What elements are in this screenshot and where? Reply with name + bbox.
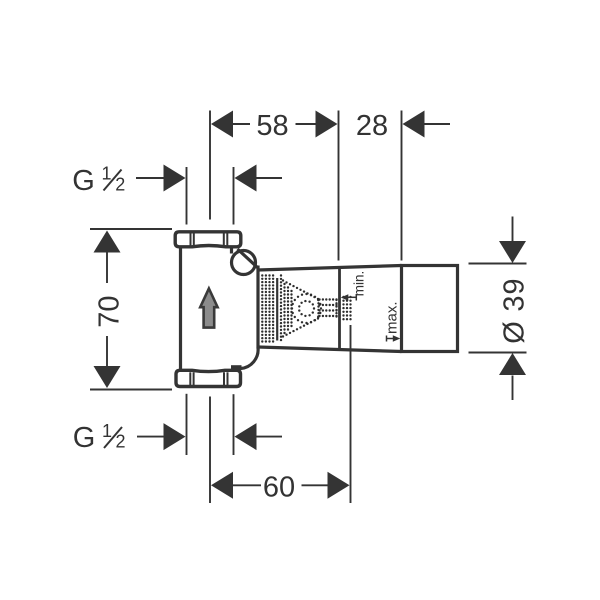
wire: 70-dimension extension lines (90, 228, 172, 230)
node A: centre-axis extension line (bottom) (209, 397, 211, 504)
svg-text:1: 1 (102, 164, 112, 184)
svg-text:60: 60 (263, 471, 295, 503)
cone top edge (258, 266, 402, 271)
svg-text:70: 70 (94, 295, 126, 327)
arrow: 60 left (pointing left) (211, 472, 233, 499)
wire: 58-dimension tail left (233, 123, 250, 125)
arrow: 58 right / 28 left (tip at min line) (316, 111, 338, 138)
service-stop horn circle (232, 251, 256, 275)
svg-text:min.: min. (351, 271, 366, 297)
node D: 60-dimension right extension line (350, 325, 352, 503)
node B: min-plane extension line (top) (338, 111, 340, 261)
wire: G1/2 top extension lines (186, 167, 188, 225)
wire: G1/2 bottom extension lines (186, 394, 188, 455)
wire: G1/2 top leader from label (136, 177, 164, 179)
svg-text:G: G (72, 165, 95, 197)
svg-text:2: 2 (116, 432, 126, 452)
svg-text:58: 58 (256, 110, 288, 142)
arrow: diameter-39 bottom (pointing up) (499, 353, 526, 375)
bottom nut facet lines (190, 372, 227, 385)
cartridge flange solid line (276, 278, 278, 341)
svg-text:2: 2 (115, 174, 125, 194)
wire: G1/2 bottom leader from label (137, 436, 164, 438)
wire: 70-dimension line tails (106, 253, 108, 284)
svg-text:G: G (73, 422, 96, 454)
wire: diameter-39 extension lines (469, 263, 527, 265)
arrow: 28 right (tip at max line, pointing left) (403, 111, 425, 138)
arrow: G1/2 bottom right (pointing left) (235, 423, 257, 450)
arrow: G1/2 bottom left (pointing right) (164, 423, 186, 450)
bottom step ledge (231, 365, 242, 370)
top hex nut (175, 232, 241, 247)
max marker arrow (387, 335, 401, 341)
valve body outline (175, 232, 457, 387)
top nut facet lines (191, 233, 228, 246)
protective sleeve rectangle (max plane at its left edge) (402, 266, 458, 352)
body right edge stub below top nut (230, 248, 233, 254)
bottom hex nut (176, 370, 241, 386)
arrow: G1/2 top right (pointing left) (235, 165, 257, 192)
wire: G1/2 top tail right (257, 177, 283, 179)
label G 1/2 (bottom) (73, 421, 126, 454)
arrow: 60 right (pointing right) (328, 472, 350, 499)
stipple pattern: cross-sectioned internals (261, 274, 352, 342)
bottom fillet arc (241, 348, 259, 369)
node C: max-plane extension line (top) (401, 111, 403, 261)
cone back face (left edge) (256, 266, 259, 349)
arrow: G1/2 top left (pointing right) (164, 165, 186, 192)
arrow: 70 top (pointing up) (94, 231, 121, 253)
label G 1/2 (top) (72, 164, 125, 197)
arrow: 70 bottom (pointing down) (94, 366, 121, 388)
wire: 60-dimension line mid (302, 484, 328, 486)
wire: 60-dimension tail left (233, 484, 261, 486)
cone bottom edge (258, 347, 402, 352)
svg-text:Ø 39: Ø 39 (498, 278, 530, 344)
node A: inlet centre-axis extension line (top) (209, 111, 211, 220)
svg-text:max.: max. (384, 301, 401, 334)
shoulder diagonal to cone (238, 249, 258, 268)
flow direction arrow (grey) (200, 289, 217, 328)
arrow: 58 left (tip at axis line) (211, 111, 233, 138)
body left edge (179, 248, 182, 370)
min plane line (338, 269, 341, 350)
wire: diameter-39 dimension line tails (512, 217, 514, 242)
arrow: diameter-39 top (pointing down) (499, 241, 526, 263)
wire: 58-dimension line mid (296, 123, 317, 125)
wire: G1/2 bottom tail right (257, 436, 283, 438)
svg-text:28: 28 (356, 110, 388, 142)
svg-text:1: 1 (102, 421, 112, 441)
wire: 28-dimension tail right (424, 123, 450, 125)
min marker arrow (341, 294, 357, 301)
